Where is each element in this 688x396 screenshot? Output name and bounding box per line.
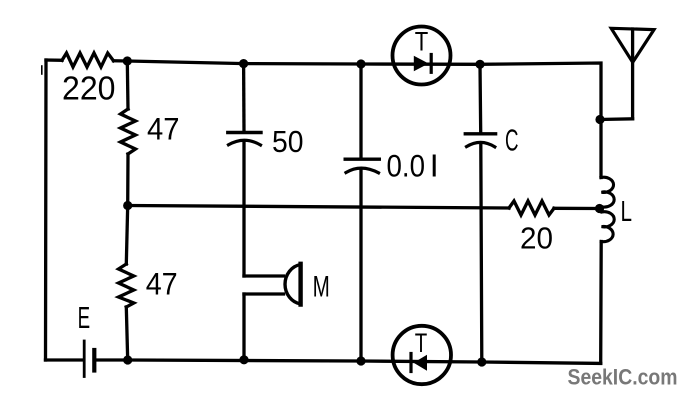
svg-text:50: 50 bbox=[272, 125, 304, 159]
capacitor C2 0.01 bbox=[345, 159, 379, 173]
svg-text:C: C bbox=[505, 123, 519, 158]
wire node C through T1 to node D bbox=[361, 62, 480, 66]
svg-text:SeekIC.com: SeekIC.com bbox=[568, 365, 678, 390]
svg-text:M: M bbox=[313, 270, 330, 303]
wire node C down bbox=[359, 64, 362, 158]
svg-text:0.0: 0.0 bbox=[387, 148, 426, 184]
svg-text:47: 47 bbox=[146, 266, 178, 302]
wire C2 to bottom rail bbox=[359, 170, 362, 362]
wire R1 to node A bbox=[114, 59, 128, 63]
wire node E down bbox=[126, 206, 127, 265]
svg-text:L: L bbox=[621, 196, 633, 228]
transistor T1 bbox=[393, 27, 451, 85]
resistor R1 220 bbox=[62, 53, 114, 67]
capacitor C3 C bbox=[465, 134, 495, 147]
coil tap junction dot bbox=[595, 204, 604, 213]
tick mark top-left bbox=[41, 66, 43, 74]
resistor R2 47 bbox=[121, 109, 136, 154]
wire middle rail bbox=[128, 206, 509, 209]
node B junction dot bbox=[239, 59, 248, 68]
node A junction dot bbox=[123, 56, 132, 65]
battery E bbox=[84, 341, 94, 377]
wire antenna to node F bbox=[600, 117, 633, 121]
svg-text:T: T bbox=[415, 27, 429, 57]
wire M to bottom rail bbox=[242, 294, 245, 360]
bottom rail dot 1 bbox=[123, 355, 132, 364]
svg-text:47: 47 bbox=[147, 111, 180, 147]
svg-text:20: 20 bbox=[520, 222, 553, 256]
microphone M bbox=[244, 264, 301, 305]
resistor R4 20 bbox=[509, 201, 554, 215]
bottom rail dot 3 bbox=[356, 356, 365, 365]
wire R2 to node E bbox=[126, 154, 130, 206]
wire node D to top-right corner bbox=[480, 63, 601, 120]
svg-text:T: T bbox=[415, 328, 428, 358]
node C junction dot bbox=[356, 59, 365, 68]
svg-text:E: E bbox=[78, 301, 91, 335]
wire R4 to coil tap bbox=[554, 207, 600, 210]
wire bottom rail bbox=[128, 360, 601, 363]
bottom rail dot 4 bbox=[477, 357, 486, 366]
antenna bbox=[611, 28, 654, 119]
wire node B down bbox=[242, 64, 246, 131]
wire top-left segment bbox=[46, 58, 62, 62]
wire right side down to coil bbox=[599, 120, 602, 178]
node F antenna junction dot bbox=[595, 115, 604, 124]
capacitor C1 50 bbox=[228, 133, 261, 146]
wire node D down bbox=[478, 64, 482, 132]
wire C1 to M bbox=[242, 142, 245, 276]
wire coil to bottom-right corner bbox=[599, 242, 603, 364]
transistor T2 bbox=[393, 326, 451, 384]
node E junction dot bbox=[123, 201, 132, 210]
wire battery to bottom rail bbox=[96, 358, 128, 361]
wire R3 to bottom rail bbox=[126, 307, 127, 360]
node D junction dot bbox=[475, 60, 484, 69]
resistor R3 47 bbox=[119, 264, 134, 307]
svg-text:220: 220 bbox=[62, 69, 116, 106]
wire node A down bbox=[126, 61, 130, 109]
bottom rail dot 2 bbox=[239, 355, 248, 364]
inductor L bbox=[601, 177, 614, 241]
wire node A to node B bbox=[127, 61, 243, 64]
wire left border bbox=[44, 60, 48, 360]
wire C3 to bottom rail bbox=[481, 144, 482, 363]
wire bottom-left to battery bbox=[46, 358, 83, 361]
wire node B to node C bbox=[244, 62, 361, 66]
